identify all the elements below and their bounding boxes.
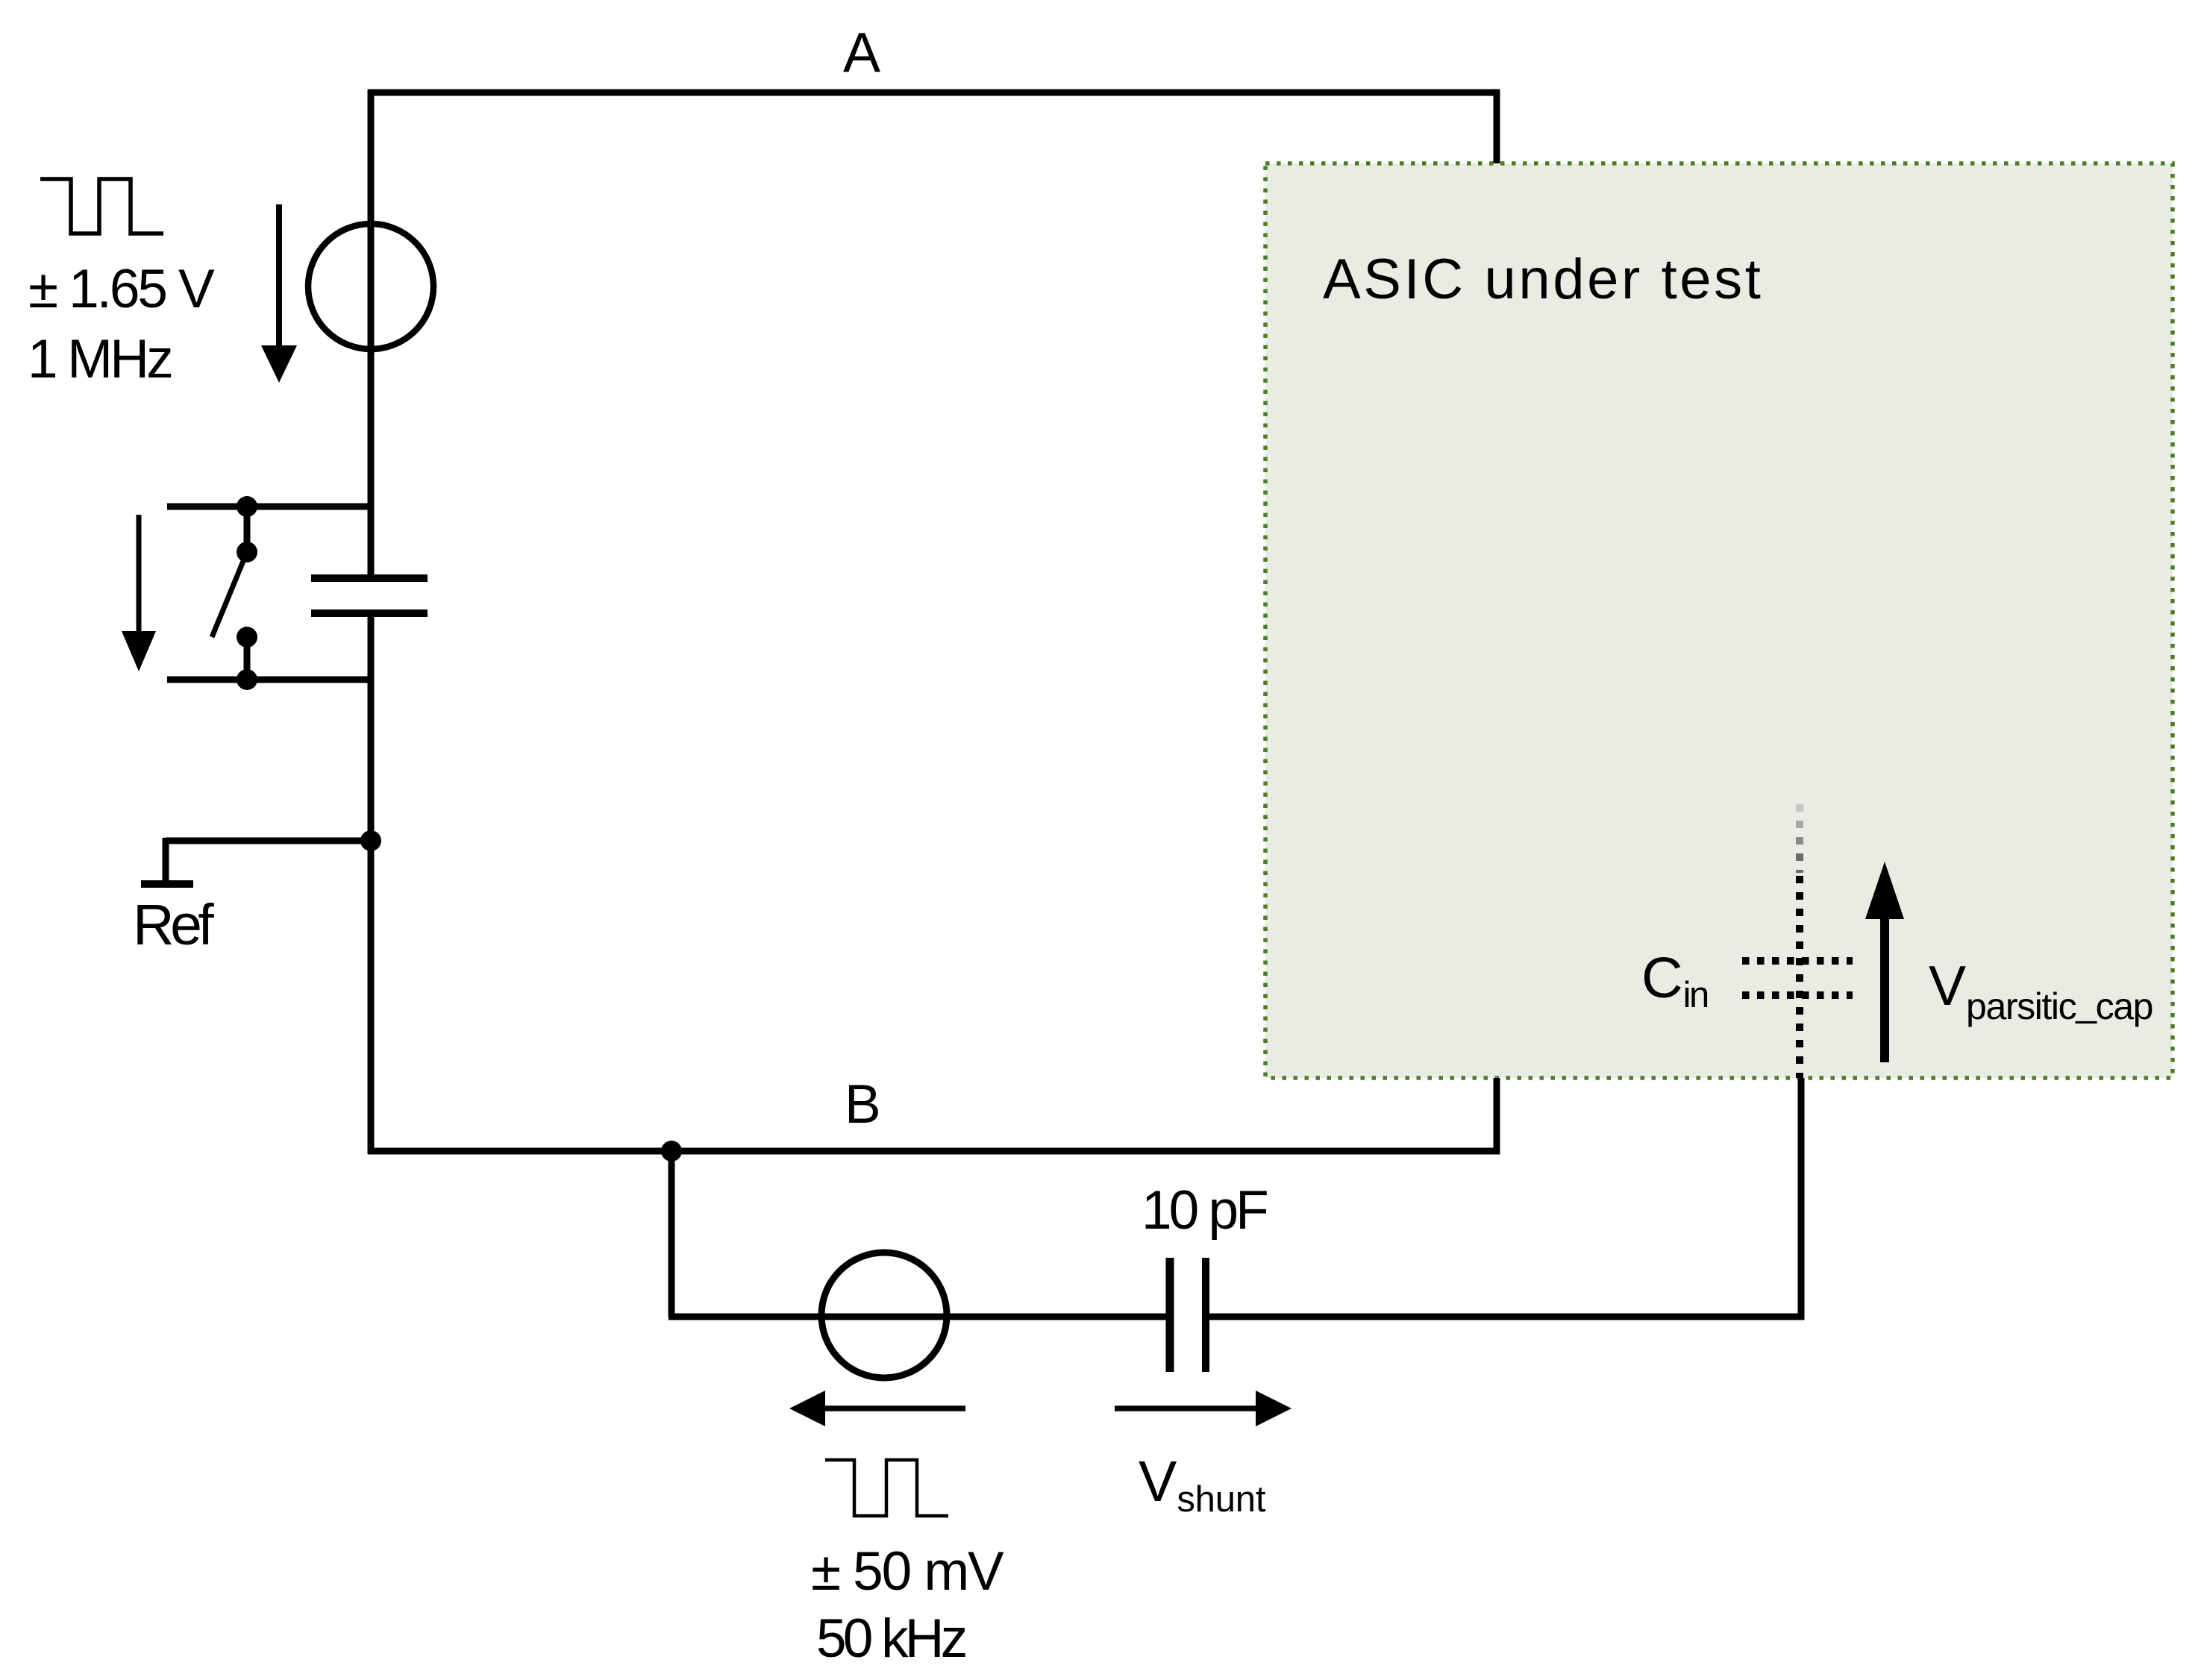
voltage source V1 circle [308,224,433,349]
voltage source V2 circle (shunt source) [821,1253,947,1378]
square wave symbol (50 kHz source) [825,1460,948,1516]
wire bottom horizontal right part [1206,1314,1804,1320]
capacitor 10 pF (shunt) [1170,1258,1206,1372]
wire bottom horizontal left part [669,1314,1170,1320]
node junction to Ref [360,830,381,851]
wire A (top horizontal) [368,90,1500,96]
ASIC under test box [1265,163,2173,1078]
svg-text:± 50 mV: ± 50 mV [811,1541,1004,1602]
wire left vertical upper [368,90,375,578]
wire B (horizontal) [368,1148,1500,1155]
arrow (up) V_parsitic_cap [1865,862,1904,1062]
wire junction down [669,1151,675,1317]
svg-text:A: A [843,21,880,84]
square wave symbol (1 MHz source) [40,179,163,233]
arrow (right) V_shunt [1115,1391,1292,1426]
wire B up into box bottom [1494,1078,1500,1154]
svg-text:ASIC under test: ASIC under test [1323,248,1764,311]
switch branch bottom wire [167,677,371,683]
wire right vertical into box top [1494,90,1500,163]
capacitor C1 (sampling cap) [311,578,428,613]
svg-text:10 pF: 10 pF [1142,1180,1267,1241]
switch branch top wire [167,504,371,510]
wire left vertical lower [368,613,375,1154]
svg-text:Ref: Ref [133,893,214,957]
current direction arrow (down) beside source [261,204,297,383]
Cin dotted wire (gray upper) [1796,804,1803,823]
ground Ref [141,880,193,888]
svg-text:50 kHz: 50 kHz [816,1608,965,1669]
arrow (down) beside switch [122,515,156,671]
svg-text:1 MHz: 1 MHz [28,329,171,389]
wire to Ref ground [166,838,371,844]
switch S1 [212,496,257,690]
node junction on wire B [661,1141,682,1162]
capacitor Cin dotted plates [1742,961,1853,995]
Cin dotted wire (black) [1796,876,1803,1078]
svg-text:B: B [845,1074,881,1135]
svg-text:± 1.65 V: ± 1.65 V [28,259,215,319]
arrow (left) under source [789,1391,965,1426]
wire up to Cin below box [1798,1078,1805,1320]
